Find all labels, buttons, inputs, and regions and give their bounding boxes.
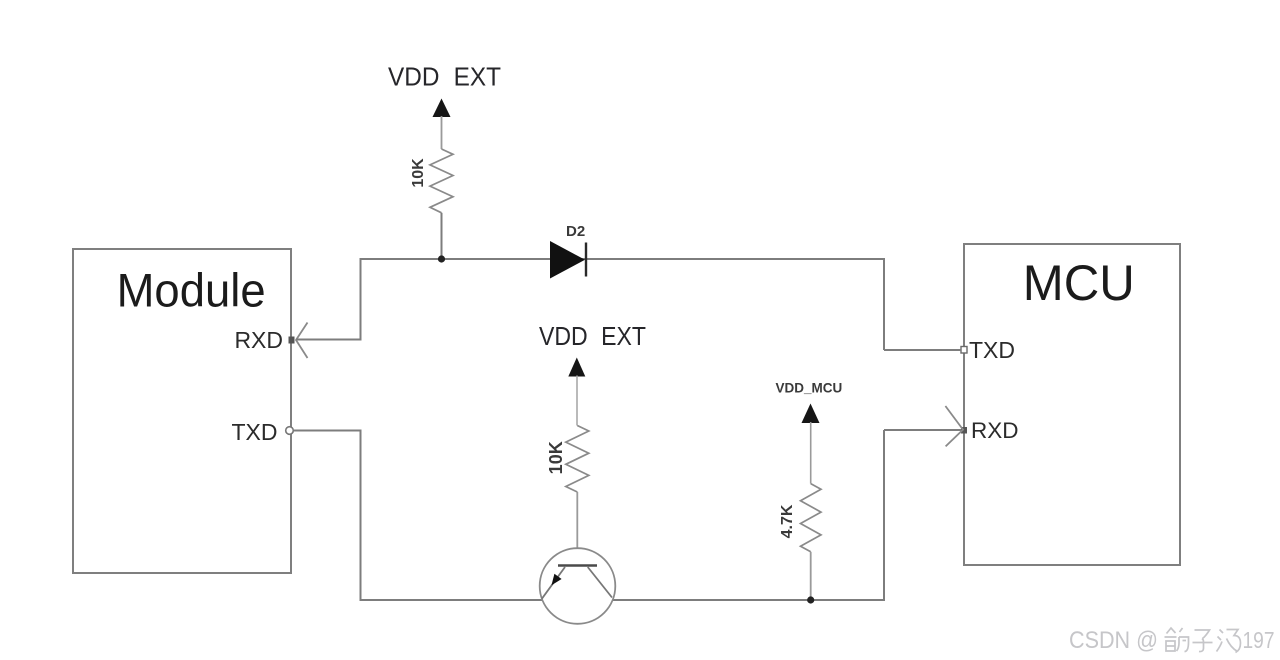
wire MCU RXD horizontal (884, 429, 961, 431)
transistor Q1 base bar (558, 564, 597, 567)
wire Module TXD horizontal (294, 430, 362, 432)
lead arrow to R3 (810, 422, 812, 484)
wire left vertical Module TXD down (360, 431, 362, 602)
svg-text:10K: 10K (546, 441, 566, 474)
svg-text:VDD EXT: VDD EXT (388, 62, 501, 92)
svg-text:RXD: RXD (971, 418, 1019, 443)
resistor R3 4.7K (801, 484, 822, 552)
pin TXD (Module) (286, 427, 294, 435)
wire bottom left to transistor (360, 599, 543, 601)
pin RXD (Module) (289, 337, 295, 344)
power arrow VDD EXT (middle) (568, 358, 585, 377)
wire bottom right from transistor (613, 599, 885, 601)
power arrow VDD EXT (top) (433, 99, 451, 118)
transistor Q1 body circle (540, 548, 616, 624)
watermark glyph zi (1193, 630, 1213, 652)
watermark glyph tang (1217, 630, 1241, 653)
wire left vertical to Module RXD (360, 258, 362, 340)
svg-text:VDD EXT: VDD EXT (539, 321, 646, 351)
lead arrow to R1 (441, 116, 443, 149)
svg-text:197: 197 (1243, 627, 1275, 653)
resistor R2 10K (base pull-up) (566, 426, 589, 493)
svg-text:MCU: MCU (1023, 255, 1135, 311)
resistor R1 10K (top pull-up) (430, 149, 453, 213)
module box U_Module (73, 249, 291, 573)
wire right vertical top to MCU TXD (883, 258, 885, 350)
svg-text:10K: 10K (410, 158, 427, 188)
diode D2 (550, 241, 585, 279)
wire MCU TXD horizontal (884, 349, 961, 351)
svg-text:RXD: RXD (234, 327, 283, 353)
pin RXD (MCU) (961, 427, 967, 434)
junction node (R1 / top wire) (438, 255, 445, 262)
power arrow VDD_MCU (802, 404, 820, 424)
junction node (R3 / bottom wire) (807, 596, 814, 603)
wire top horizontal (Module net to diode to MCU TXD) (361, 258, 885, 260)
lead R3 to node (810, 552, 812, 601)
svg-text:Module: Module (117, 264, 266, 317)
transistor Q1 emitter arrow (552, 574, 562, 586)
lead arrow to R2 (576, 376, 578, 426)
svg-text:4.7K: 4.7K (779, 504, 796, 538)
diode D2 cathode bar (585, 243, 587, 277)
svg-text:TXD: TXD (969, 337, 1015, 363)
svg-text:D2: D2 (566, 223, 585, 240)
transistor Q1 emitter line (542, 567, 565, 599)
wire Module RXD horizontal (296, 339, 362, 341)
input arrow at MCU RXD (945, 406, 963, 446)
wire right vertical bottom to MCU RXD (883, 430, 885, 601)
lead R2 to transistor base (576, 492, 578, 565)
svg-text:CSDN @: CSDN @ (1069, 627, 1158, 654)
pin TXD (MCU) (961, 347, 967, 354)
watermark glyph ge (1165, 628, 1189, 652)
MCU box U_MCU (964, 244, 1180, 565)
transistor Q1 collector line (588, 567, 612, 598)
svg-text:TXD: TXD (232, 419, 278, 445)
svg-text:VDD_MCU: VDD_MCU (776, 381, 843, 396)
input arrow at Module RXD (296, 323, 308, 359)
lead R1 to node (441, 213, 443, 259)
